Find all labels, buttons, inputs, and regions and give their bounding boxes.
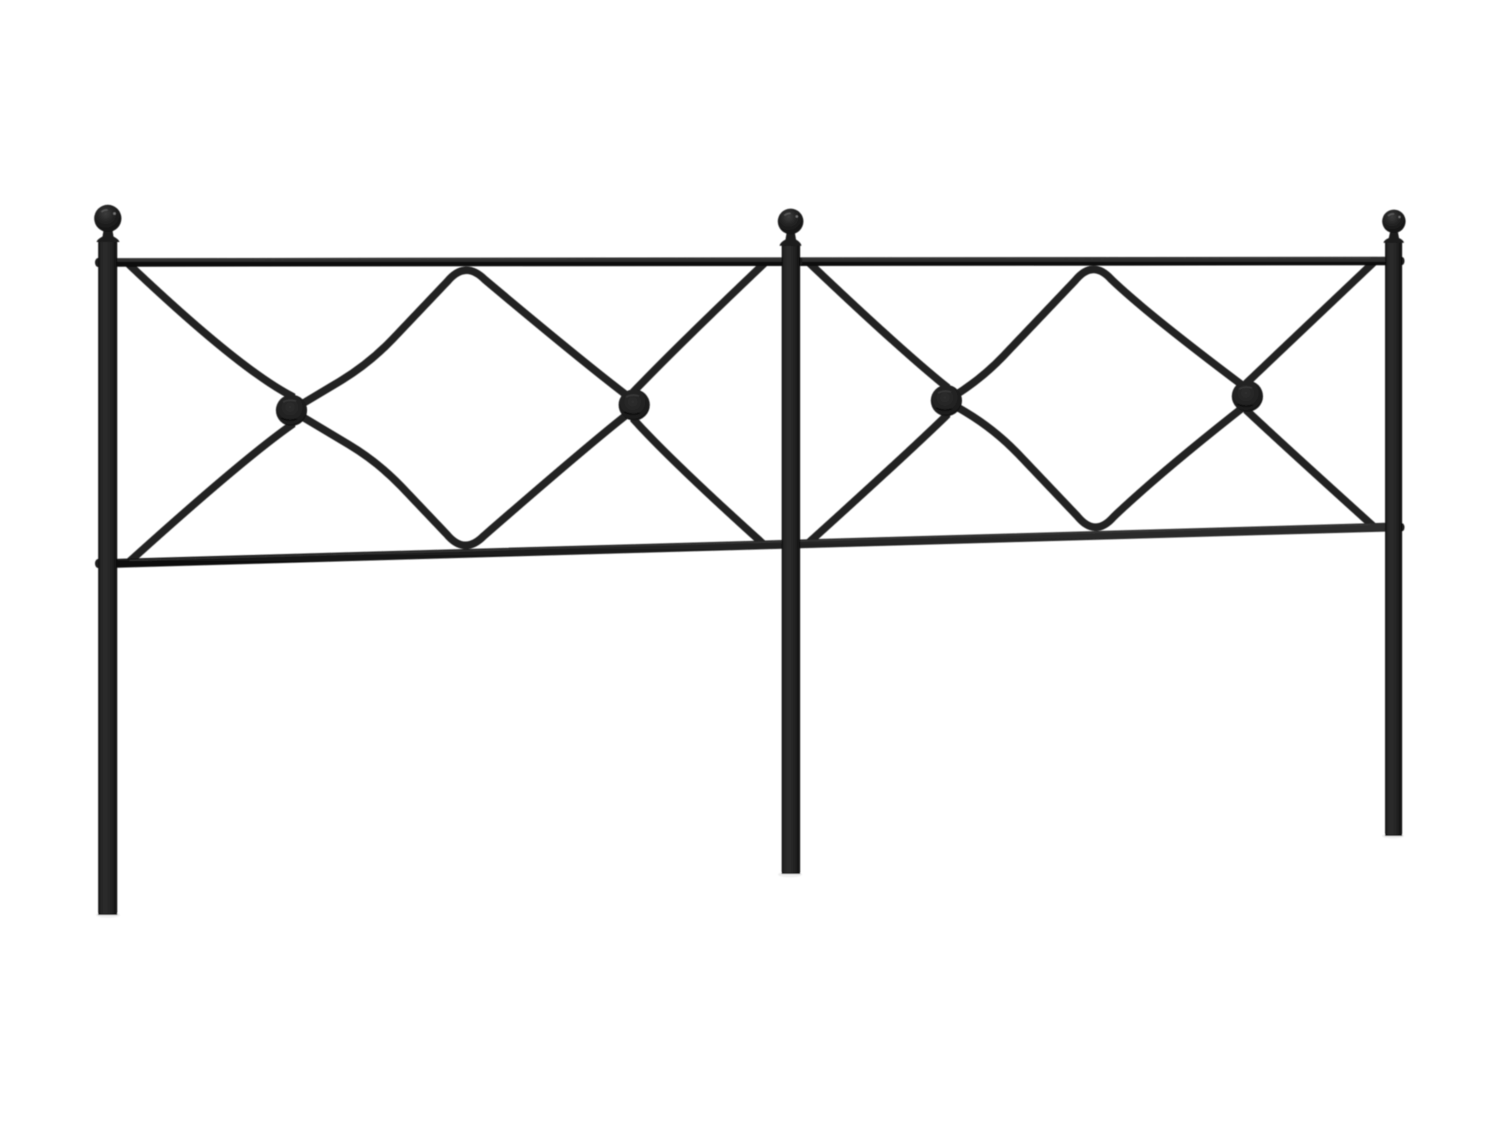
shadow under center post bbox=[778, 872, 802, 878]
left post bbox=[99, 242, 117, 915]
weld bump center post top rail bbox=[798, 258, 803, 266]
shadow under left post bbox=[96, 912, 120, 918]
weld bump left post bottom rail bbox=[95, 559, 101, 568]
medallion M2 bbox=[619, 389, 650, 420]
bent bar 1: left panel V (top-left to top-right through bottom bend) bbox=[127, 262, 766, 546]
bent bar 4: right panel inverted-V bbox=[808, 269, 1375, 543]
weld bump right post bottom rail bbox=[1400, 523, 1405, 531]
center finial collar bbox=[780, 234, 802, 246]
bent bar 3: right panel V bbox=[808, 261, 1375, 527]
left finial ball bbox=[94, 205, 121, 232]
right finial collar bbox=[1384, 233, 1405, 243]
bottom rail highlight bbox=[130, 525, 1370, 561]
weld bump right post top rail bbox=[1400, 257, 1405, 265]
center finial ball bbox=[778, 209, 804, 235]
right post bbox=[1386, 242, 1402, 836]
top rail bbox=[117, 261, 1385, 262]
top rail highlight bbox=[130, 258, 1370, 259]
center post bbox=[782, 246, 799, 874]
bottom rail bbox=[117, 527, 1385, 563]
left finial collar bbox=[97, 231, 120, 243]
weld bump left post top rail bbox=[95, 258, 101, 267]
shadow under right post bbox=[1382, 834, 1404, 839]
medallion M1 bbox=[276, 395, 307, 426]
right finial ball bbox=[1382, 210, 1405, 233]
medallion M3 bbox=[931, 385, 962, 416]
bent bar 2: left panel inverted-V (bottom-left to bottom-right through top bend) bbox=[128, 270, 764, 563]
medallion M4 bbox=[1232, 381, 1263, 412]
